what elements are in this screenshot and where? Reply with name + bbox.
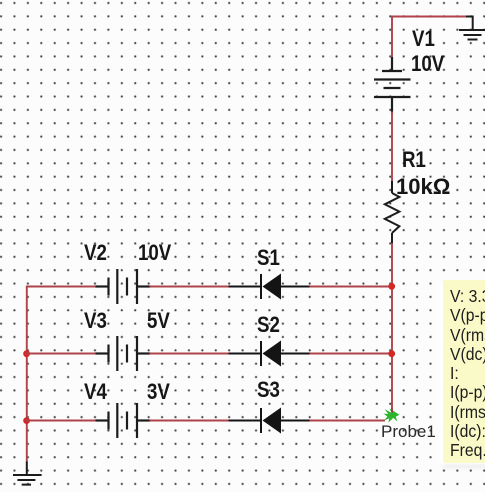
junction node A	[388, 283, 395, 290]
label Probe1	[381, 423, 436, 440]
wire: V2 to S1 (red)	[150, 286, 230, 288]
wire: rail to V2 (red)	[26, 286, 97, 288]
junction on rail at V4 row	[23, 417, 30, 424]
battery V3	[96, 336, 151, 371]
wire: S2 to node B (red)	[310, 353, 392, 355]
battery V2	[96, 269, 151, 304]
wire: rail to V4 (red)	[26, 420, 97, 422]
label V1	[412, 28, 435, 50]
junction node B	[388, 350, 395, 357]
diode S3	[229, 408, 311, 434]
wire: node A to node B (red)	[391, 287, 393, 355]
resistor R1	[385, 181, 400, 244]
label V4	[84, 381, 107, 403]
wire tip into probe	[391, 408, 393, 413]
label V4 value 3V	[147, 381, 170, 403]
label R1 value 10kOhm	[396, 176, 450, 198]
diode S1	[229, 274, 311, 300]
label V2	[84, 242, 107, 264]
ground GND2 bottom-left	[13, 462, 42, 485]
label V2 value 10V	[138, 242, 171, 264]
ground GND1 top-right	[459, 17, 485, 40]
label V1 value 10V	[411, 53, 444, 75]
probe Probe1 arrow	[384, 409, 400, 423]
label V3 value 5V	[147, 310, 170, 332]
label S2	[257, 314, 280, 336]
label R1	[402, 149, 426, 171]
battery V1	[374, 57, 411, 113]
wire: S3 to probe point (red)	[310, 420, 386, 422]
label V3	[84, 310, 107, 332]
wire: V1 to R1 (red)	[391, 112, 393, 183]
wire: V3 to S2 (red)	[150, 353, 230, 355]
label S3	[257, 379, 280, 401]
wire: rail to V3 (red)	[26, 353, 97, 355]
battery V4	[96, 403, 151, 438]
probe readout tooltip	[443, 280, 485, 463]
wire: left rail (red)	[26, 287, 28, 463]
diode S2	[229, 341, 311, 367]
label S1	[257, 247, 280, 269]
wire: S1 to node A (red)	[310, 286, 392, 288]
wire top: battery V1 plus terminal to ground (red)	[392, 17, 467, 59]
wire: node B to probe point (red)	[391, 354, 393, 409]
junction on rail at V3 row	[23, 350, 30, 357]
wire: V4 to S3 (red)	[150, 420, 230, 422]
wire: R1 to node A (red)	[391, 243, 393, 287]
